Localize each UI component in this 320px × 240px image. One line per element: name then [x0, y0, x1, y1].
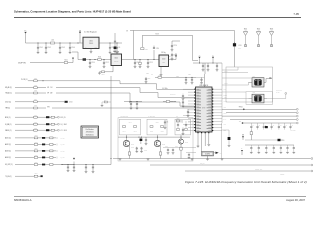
signal row SF_OUT (C) with resistor R316: [5, 162, 74, 167]
svg-text:R315: R315: [35, 154, 38, 156]
crystal Y101 symbol: [249, 79, 267, 85]
svg-text:VCC: VCC: [224, 96, 227, 98]
svg-text:R304: R304: [34, 99, 37, 101]
gnd on rail 1: [119, 159, 122, 160]
svg-text:C462: C462: [188, 122, 191, 124]
resistor R106: [98, 56, 102, 60]
svg-text:3.0V Reg: 3.0V Reg: [113, 51, 119, 53]
capacitor C211: [187, 109, 190, 117]
svg-text:R308: R308: [34, 127, 37, 129]
signal row 16_8M with resistor R307: [5, 121, 67, 125]
svg-text:R307: R307: [34, 121, 37, 123]
IC U200 bottom pins: [197, 132, 209, 133]
svg-text:R301: R301: [34, 78, 37, 80]
figure caption: [185, 180, 307, 184]
svg-text:C401: C401: [131, 147, 134, 149]
svg-text:R305: R305: [34, 105, 37, 107]
svg-text:U101: U101: [89, 41, 93, 43]
svg-text:C121: C121: [168, 56, 171, 58]
svg-text:VMOD (C): VMOD (C): [5, 130, 12, 132]
transistor Q401: [123, 135, 129, 147]
svg-text:TP101: TP101: [239, 107, 243, 109]
cap cluster above IC 2: [207, 63, 210, 71]
power flag 5V: [79, 30, 82, 43]
wire rail to IC: [204, 63, 206, 74]
header running title: [14, 10, 131, 14]
wires into reference box: [222, 73, 252, 99]
svg-text:VCO BUFFER: VCO BUFFER: [120, 116, 128, 118]
svg-text:16.8: 16.8: [238, 47, 241, 49]
testpoint TP101: [239, 107, 245, 111]
flag 3V mid right: [242, 135, 245, 140]
capacitor C203: [191, 77, 194, 84]
label near bead L203b: [238, 47, 241, 49]
resistor mid: [163, 101, 176, 103]
resistor R105: [64, 59, 68, 63]
svg-text:PREIN: PREIN: [223, 95, 227, 97]
capacitor C210: [182, 100, 185, 108]
resistor R201: [155, 75, 166, 79]
svg-text:R316: R316: [35, 162, 38, 164]
signal row TR_AD with resistor R303: [5, 90, 130, 94]
oscillator sub-box C: [175, 119, 191, 135]
capacitor C401: [131, 147, 138, 149]
crystal Y101 output elbow: [266, 78, 272, 83]
row SF_OUT cluster: [62, 158, 79, 172]
cap row1 rail: [239, 121, 298, 124]
bead below IC right: [222, 130, 230, 147]
svg-text:August 30, 2007: August 30, 2007: [286, 198, 305, 202]
capacitor C104: [69, 43, 75, 54]
svg-text:R306: R306: [34, 114, 37, 116]
signal row VMOD with resistor R308: [5, 127, 67, 131]
caps under IC row B: [186, 153, 196, 159]
svg-text:C116: C116: [156, 48, 159, 50]
svg-text:R451: R451: [150, 131, 153, 133]
footer date: [286, 198, 305, 202]
capacitor C112: [103, 60, 109, 68]
net line right 4: [230, 119, 298, 121]
svg-text:L101: L101: [51, 40, 54, 42]
capacitor C402: [135, 147, 147, 153]
cap row2 rail: [245, 144, 294, 146]
extra labels top mid: [146, 73, 191, 76]
capacitor C310: [85, 165, 88, 173]
svg-text:Q402: Q402: [162, 144, 165, 146]
wire below IC with arrow: [214, 152, 222, 155]
signal row LOCK with resistor R304: [5, 99, 73, 103]
capacitor C212: [182, 128, 185, 135]
signal row bottom: [5, 173, 43, 178]
IC U200 right pins: [212, 89, 213, 131]
capacitor C202: [185, 77, 188, 84]
svg-text:3V: 3V: [126, 31, 128, 33]
warp pad: [267, 93, 287, 99]
svg-text:R441: R441: [123, 131, 126, 133]
svg-text:TRB_RX: TRB_RX: [200, 163, 205, 165]
signal row SR_AD with resistor R302: [5, 85, 140, 89]
signal row AUX4 (C) with resistor R315: [5, 154, 65, 159]
IC U200 label: [199, 84, 208, 87]
bottom long net 2: [185, 170, 313, 172]
svg-text:16.8 MHz: 16.8 MHz: [170, 94, 176, 96]
diode CR401: [140, 137, 143, 144]
U103 ground stub: [160, 67, 163, 76]
resistor R108: [139, 60, 142, 68]
IC U200 body: [196, 87, 213, 132]
crystal Y102 symbol: [249, 95, 268, 101]
vco inner box: [246, 92, 273, 105]
svg-text:R120: R120: [145, 49, 148, 51]
svg-text:3V Dig: 3V Dig: [161, 52, 165, 54]
extra gnd under C121: [168, 56, 171, 58]
svg-text:U103: U103: [162, 59, 165, 61]
wire C120 feed: [172, 41, 180, 44]
label net KD: [290, 130, 296, 132]
regulator U102: [111, 54, 122, 66]
gnd on rail 4: [221, 159, 224, 160]
svg-text:4780163U01: 4780163U01: [86, 132, 94, 134]
svg-text:R314: R314: [35, 148, 38, 150]
reference section box: [226, 67, 273, 102]
svg-text:R202: R202: [176, 75, 179, 77]
component on bus2 drop: [141, 48, 148, 51]
label 3V regulator: [113, 51, 119, 53]
svg-text:GND: GND: [223, 130, 226, 132]
signal row AUX3 (C) with resistor R314: [5, 148, 65, 153]
svg-text:16_8M (C): 16_8M (C): [5, 124, 12, 126]
row2 rail: [245, 139, 285, 142]
svg-text:REG: REG: [162, 61, 165, 63]
resistor R107: [98, 71, 105, 76]
svg-text:C471: C471: [175, 146, 178, 148]
wire flags rail: [193, 62, 222, 64]
labels near osc boxes: [120, 116, 178, 118]
svg-text:R106: R106: [98, 56, 101, 58]
svg-text:Schematics, Component Location: Schematics, Component Location Diagrams,…: [14, 10, 131, 14]
svg-text:VSS: VSS: [223, 107, 226, 109]
IC U200 internal pin names: [196, 89, 211, 132]
svg-text:MOD (C): MOD (C): [5, 117, 11, 119]
testpoint M102: [256, 28, 260, 46]
label warp: [276, 90, 282, 94]
svg-text:7-95: 7-95: [293, 12, 299, 16]
header page number: [293, 12, 299, 16]
svg-text:R303: R303: [34, 90, 37, 92]
wire top bus 1: [130, 30, 235, 32]
svg-text:3V: 3V: [199, 55, 201, 57]
ferrite bead L203: [233, 42, 242, 47]
net line right 2: [226, 112, 298, 114]
labels under transistors: [131, 142, 188, 146]
svg-text:C103: C103: [61, 47, 65, 49]
svg-text:U102: U102: [115, 58, 119, 60]
svg-text:6816532H01-A: 6816532H01-A: [14, 198, 32, 202]
gnd on rail 3: [191, 159, 194, 160]
bias rail: [118, 137, 190, 138]
wire 5V reg input: [26, 42, 84, 44]
wire bus to ref box: [222, 67, 238, 70]
svg-text:PRESC: PRESC: [280, 174, 284, 176]
capacitor C105: [109, 43, 115, 54]
IC right net names: [223, 89, 227, 132]
svg-text:16.8 MHz: 16.8 MHz: [162, 88, 168, 90]
svg-text:TX_EN (C): TX_EN (C): [5, 176, 12, 178]
signal row 5V_RF with resistor R301: [21, 78, 120, 82]
svg-text:C451: C451: [156, 121, 159, 123]
wire top bus 2: [142, 34, 192, 36]
tantalum C111: [83, 58, 86, 60]
svg-text:Q403: Q403: [185, 142, 188, 144]
svg-text:VCO_MOD: VCO_MOD: [60, 130, 67, 132]
transistor Q403: [178, 139, 183, 144]
svg-text:5V_RF_EN: 5V_RF_EN: [18, 62, 26, 64]
svg-text:C201: C201: [148, 78, 151, 80]
wire U102 to U103: [122, 59, 160, 60]
footer rule: [14, 195, 306, 197]
wire into IC top: [196, 74, 204, 89]
capacitor C110: [89, 60, 95, 68]
svg-text:TRB (C): TRB (C): [5, 108, 10, 110]
wire top bus 2 vertical: [142, 35, 192, 60]
svg-text:IN: IN: [85, 46, 86, 48]
svg-text:Y102: Y102: [252, 92, 255, 94]
svg-text:SPI_CLK: SPI_CLK: [47, 87, 53, 89]
svg-text:C101: C101: [39, 47, 43, 49]
cap cluster mid3: [164, 120, 169, 129]
wire into U102: [72, 52, 111, 60]
capacitor C311: [92, 165, 95, 173]
bottom net label: [280, 174, 284, 176]
svg-text:SF_OUT (C): SF_OUT (C): [5, 164, 13, 166]
emitter resistor R404: [159, 146, 162, 159]
svg-text:C470: C470: [165, 146, 168, 148]
resistor R150: [250, 130, 252, 140]
label above IC cluster: [151, 74, 179, 77]
svg-text:R317: R317: [35, 173, 38, 175]
junction dots input rail: [38, 43, 79, 44]
wire top bus 1 vertical: [234, 31, 236, 68]
capacitor C106: [116, 43, 121, 54]
capacitor C403: [145, 137, 148, 145]
oscillator enclosure: [118, 118, 193, 161]
mid wire: [124, 101, 142, 102]
label 5 volt regulator: [84, 31, 97, 34]
capacitor row lower: [250, 145, 295, 154]
svg-text:8809545Z01: 8809545Z01: [86, 134, 94, 136]
svg-text:R313: R313: [35, 141, 38, 143]
oscillator sub-box A: [120, 119, 141, 135]
svg-text:C205: C205: [146, 73, 149, 75]
signal row AUX1 (C) with resistor R312: [5, 135, 65, 140]
svg-text:R201: R201: [158, 75, 161, 77]
svg-text:B+: B+: [25, 31, 27, 33]
svg-text:C441: C441: [129, 121, 132, 123]
wire crystal to gnd: [206, 156, 209, 161]
signal row TRB with resistor R305: [5, 105, 196, 109]
svg-text:5V_RF (C): 5V_RF (C): [21, 79, 28, 81]
svg-text:LOCK (C): LOCK (C): [5, 101, 11, 103]
wire enable row: [30, 62, 64, 64]
svg-text:L203: L203: [238, 45, 241, 47]
flag enable: [68, 58, 74, 63]
svg-text:LO: LO: [176, 116, 178, 118]
svg-text:C104: C104: [71, 47, 75, 49]
svg-text:TP2: TP2: [239, 121, 242, 123]
signal row AUX2 (C) with resistor R313: [5, 141, 65, 146]
regulator U103: [159, 55, 169, 67]
svg-text:Q401: Q401: [131, 144, 134, 146]
wire U103 output: [169, 59, 177, 61]
header rule: [14, 16, 301, 18]
svg-text:16.8MHz: 16.8MHz: [205, 154, 211, 156]
svg-text:R107: R107: [102, 74, 105, 76]
capacitor C121: [171, 53, 177, 60]
inductor L101: [50, 40, 54, 44]
svg-text:C112: C112: [105, 62, 108, 64]
svg-text:78M05: 78M05: [89, 43, 93, 45]
crystal module Y101 body: [252, 76, 264, 87]
svg-text:OUT: OUT: [94, 46, 97, 48]
wire top bus 2 lower: [193, 60, 199, 62]
net line right 3: [222, 115, 298, 117]
power flag B+: [24, 31, 26, 44]
signal row MOD with resistor R306: [5, 114, 66, 118]
oscillator ground rail: [113, 158, 313, 160]
svg-text:C120: C120: [173, 45, 177, 47]
svg-text:5V: 5V: [212, 55, 214, 57]
testpoint M103: [269, 28, 273, 46]
capacitor C103: [59, 43, 65, 54]
label U103: [161, 52, 165, 54]
label 3V bus1: [126, 31, 128, 33]
svg-text:C102: C102: [47, 47, 51, 49]
svg-text:C121: C121: [173, 54, 177, 56]
svg-text:FOUT: FOUT: [223, 112, 226, 114]
footer part number: [14, 198, 32, 202]
oscillator sub-box B: [147, 119, 167, 135]
svg-text:R105: R105: [64, 59, 67, 61]
svg-text:LP2986: LP2986: [114, 60, 119, 62]
IC bottom wires: [197, 133, 211, 151]
crystal module Y102 body: [252, 92, 264, 103]
gnd on rail 2: [147, 159, 150, 160]
long vertical bus x111: [110, 76, 112, 159]
capacitor C204: [200, 77, 203, 84]
svg-text:PRESC_OUT: PRESC_OUT: [255, 169, 263, 171]
U102 bottom stub: [103, 66, 113, 72]
transistor Q402: [154, 135, 160, 147]
bus row2 to IC: [140, 88, 196, 98]
IC U200 left pins: [194, 89, 195, 131]
svg-text:TX 5V: TX 5V: [155, 34, 159, 36]
svg-text:Figure 7-145. HUF4019A Frequen: Figure 7-145. HUF4019A Frequency Generat…: [185, 180, 307, 184]
svg-text:16_8_MHZ: 16_8_MHZ: [60, 124, 67, 126]
IC right pin wires: [213, 89, 222, 130]
ground stub U101: [90, 49, 93, 54]
svg-text:16.8 MHZ: 16.8 MHZ: [276, 90, 282, 92]
svg-text:TRB: TRB: [47, 106, 50, 108]
power flag above IC right: [212, 55, 214, 63]
svg-text:TX BUFFER: TX BUFFER: [148, 116, 155, 118]
capacitor C116 above U103: [153, 46, 159, 60]
column x115 cap: [114, 33, 119, 53]
regulator U101: [83, 37, 99, 48]
svg-text:Y101: Y101: [252, 76, 255, 78]
flag mid right lower: [241, 148, 243, 155]
labels right wires: [224, 69, 228, 98]
capacitor C114: [134, 60, 140, 68]
bottom long net 1: [150, 164, 313, 166]
IC right vertical bus: [221, 63, 223, 123]
bus row1 to IC: [120, 81, 196, 90]
svg-text:R312: R312: [35, 135, 38, 137]
svg-text:VCC: VCC: [223, 124, 226, 126]
svg-text:R302: R302: [34, 85, 37, 87]
svg-text:C3: C3: [166, 122, 168, 124]
svg-text:C442: C442: [134, 131, 137, 133]
wire bus1 vertical left: [133, 31, 135, 60]
capacitor C102: [45, 43, 51, 54]
svg-text:MOD_IN: MOD_IN: [60, 117, 65, 119]
caps under IC row A: [163, 146, 196, 155]
svg-text:VCP: VCP: [223, 89, 226, 91]
bus row3 to IC: [129, 93, 196, 106]
crystal Y201 below IC: [202, 152, 214, 156]
capacitor C120: [171, 44, 177, 52]
vertical from bus x111 mid: [101, 99, 111, 106]
svg-text:C402: C402: [144, 150, 147, 152]
resistor R210: [176, 118, 183, 122]
svg-text:L150: L150: [282, 140, 285, 142]
cap cluster above IC 3: [216, 63, 219, 71]
testpoint M101: [243, 28, 247, 46]
svg-text:C206: C206: [188, 74, 191, 76]
svg-text:C115: C115: [149, 62, 152, 64]
label 5V enable row: [18, 62, 26, 64]
svg-text:LOCK: LOCK: [69, 101, 73, 103]
capacitor row upper: [250, 123, 293, 130]
note box part numbers: [81, 126, 99, 138]
power flag above IC left: [198, 55, 200, 63]
junction on vertical bus: [111, 158, 112, 159]
cap cluster mid1: [130, 102, 133, 110]
IC bus vertical to rail: [221, 123, 223, 159]
wire cluster rail: [166, 77, 196, 78]
cap cluster above IC 1: [202, 63, 205, 71]
svg-text:C452: C452: [161, 131, 164, 133]
svg-text:9 MHZ KD: 9 MHZ KD: [290, 130, 296, 132]
wire row6 extension: [78, 159, 111, 166]
svg-text:R210: R210: [177, 118, 180, 120]
emitter resistor R403: [128, 146, 131, 159]
flag 3V out: [175, 54, 178, 60]
capacitor C101: [37, 43, 43, 54]
svg-text:C110: C110: [91, 62, 94, 64]
wire 5V reg output: [99, 43, 122, 44]
svg-text:C461: C461: [181, 122, 184, 124]
Q403 wires: [180, 135, 183, 159]
svg-text:C6: C6: [118, 47, 120, 49]
capacitor C115: [147, 60, 153, 68]
net line right 1: [222, 108, 298, 110]
svg-text:SYN: SYN: [202, 107, 205, 109]
cap cluster mid2: [136, 102, 139, 110]
IC left pin wires: [183, 89, 194, 130]
extra cap left of IC: [182, 94, 185, 101]
svg-text:RX: RX: [220, 153, 222, 155]
labels bottom nets: [200, 163, 263, 171]
